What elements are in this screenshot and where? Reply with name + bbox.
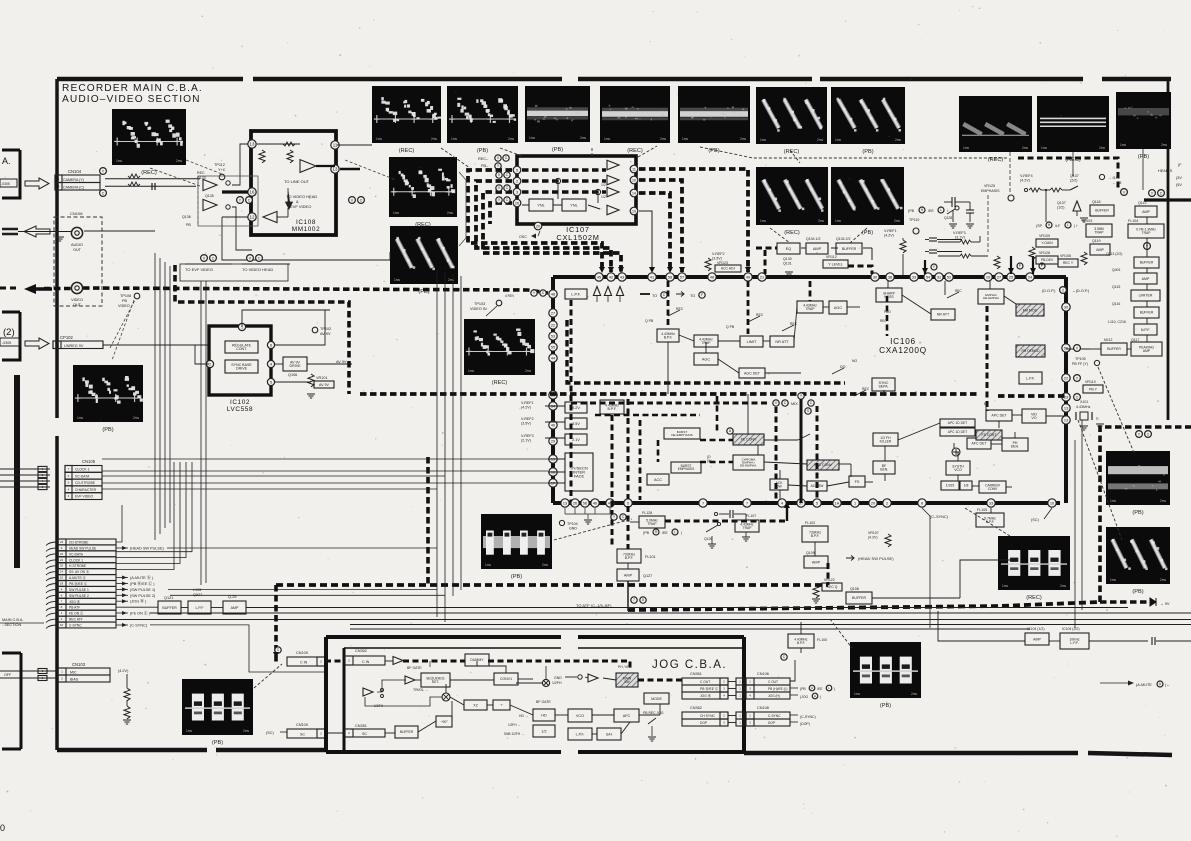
wire UNREG 9V to IC102 [103, 344, 209, 346]
svg-text:H: H [811, 686, 813, 690]
svg-text:Q113 (2/2): Q113 (2/2) [1106, 252, 1122, 256]
svg-text:16: 16 [60, 623, 64, 627]
NSC CONV hatched box [807, 460, 839, 470]
svg-text:CD-STROBE: CD-STROBE [69, 541, 89, 545]
diode and 9V at right end [1150, 598, 1156, 606]
svg-text:(REC): (REC) [627, 148, 643, 154]
dashed pointer photo p1 to IC107 bus [441, 148, 470, 168]
svg-text:): ) [820, 695, 821, 699]
wire bundle from CN105 to interface [102, 458, 548, 460]
svg-text:5: 5 [516, 168, 518, 172]
BURST EMPHASIS box [671, 462, 701, 473]
svg-text:(4.2V): (4.2V) [884, 234, 894, 238]
connector stub wires left edge to CN105 [0, 468, 50, 470]
svg-text:V-REF1: V-REF1 [884, 229, 897, 233]
IC107 YNL delay boxes [529, 199, 553, 211]
svg-text:→ ℓ106: → ℓ106 [1108, 176, 1120, 180]
oscillogram photo p15 (PB) [390, 226, 458, 284]
svg-text:C IN: C IN [300, 661, 308, 665]
oscillogram photo p3 (PB) [525, 86, 590, 142]
svg-text:L.P.F: L.P.F [195, 606, 204, 610]
dashed pointer photo p6 label [790, 150, 800, 163]
svg-text:1ms: 1ms [116, 159, 122, 163]
amp triangle after CN352 [393, 657, 403, 665]
dashed riser above pin5 [627, 399, 630, 499]
FS box 2 [849, 476, 851, 478]
svg-text:B.P.F.: B.P.F. [797, 641, 805, 645]
JOG C.B.A. box border [326, 635, 561, 639]
dashed wire C IN to DUMMY [403, 660, 465, 663]
wire IC108 right side to east [340, 144, 372, 146]
svg-text:29: 29 [551, 439, 555, 443]
svg-text:SEPA.: SEPA. [878, 384, 888, 388]
svg-text:AMP: AMP [231, 606, 239, 610]
IC107 dashed bus left pin 5 [468, 170, 602, 272]
wire top joining IC108 to top area [337, 144, 362, 146]
BF GEN box [873, 461, 895, 474]
LPF box jog [568, 728, 592, 740]
svg-text:CONV1: CONV1 [500, 677, 512, 681]
svg-text:C: C [360, 198, 363, 202]
oscillogram photo p9 (REC) [1037, 96, 1109, 152]
svg-text:Q127: Q127 [643, 574, 652, 578]
svg-text:40: 40 [551, 423, 555, 427]
svg-text:L: L [674, 530, 676, 534]
svg-text:1/8: 1/8 [964, 484, 969, 488]
resistor and heavy drops to bus [994, 256, 1000, 269]
svg-text:OUT: OUT [73, 303, 82, 307]
IC107 CXL1502M box [517, 156, 636, 224]
svg-text:Q106: Q106 [288, 373, 297, 377]
svg-text:33: 33 [989, 501, 993, 505]
svg-text:C: C [248, 198, 251, 202]
svg-text:SNB 1/2FH →: SNB 1/2FH → [504, 732, 524, 736]
svg-text:Q108: Q108 [850, 587, 859, 591]
svg-text:M112: M112 [1104, 338, 1113, 342]
svg-text:BUFFER: BUFFER [400, 730, 414, 734]
svg-text:TO VIDEO HEAD: TO VIDEO HEAD [242, 267, 273, 272]
svg-text:14: 14 [60, 570, 64, 574]
svg-text:): ) [834, 687, 835, 691]
pin V and Y C right top [1121, 189, 1128, 196]
svg-text:P: P [1041, 264, 1043, 268]
oscillogram photo p14 (REC) [389, 157, 457, 217]
svg-text:BUFFER: BUFFER [1140, 311, 1154, 315]
svg-text:CONV: CONV [988, 487, 998, 491]
svg-text:EMPHASIS: EMPHASIS [981, 189, 1000, 193]
svg-text:(SC): (SC) [266, 731, 275, 735]
svg-text:BUFFER: BUFFER [852, 596, 866, 600]
svg-text:1ms: 1ms [760, 138, 766, 142]
gnd marks below bus pins [564, 508, 566, 514]
svg-text:IC104 (1/2): IC104 (1/2) [1027, 627, 1045, 631]
heavy bus vertical x553 [551, 277, 555, 503]
svg-text:Q109: Q109 [806, 551, 815, 555]
svg-text:PB ATF: PB ATF [69, 606, 80, 610]
svg-text:MM1002: MM1002 [292, 226, 320, 233]
black arrow out video [24, 284, 52, 294]
svg-text:CN109: CN109 [296, 651, 308, 655]
svg-text:55: 55 [551, 345, 555, 349]
svg-text:(PB): (PB) [477, 148, 488, 154]
IC108 pin 13 right [331, 165, 339, 173]
svg-text:AV 9V: AV 9V [336, 360, 347, 364]
svg-text:⊦: ⊦ [947, 209, 949, 213]
svg-text:57: 57 [680, 275, 684, 279]
svg-text:FL128: FL128 [642, 511, 652, 515]
svg-text:VR101: VR101 [316, 376, 328, 380]
EMPHA DE-EMPHA box [978, 289, 1004, 304]
svg-text:1ms: 1ms [468, 369, 474, 373]
svg-text:MODE: MODE [651, 697, 662, 701]
svg-text:2ms: 2ms [525, 369, 531, 373]
PH DEH box [1002, 438, 1028, 451]
svg-text:) ⊦: ) ⊦ [1074, 224, 1078, 228]
DUMMY box [465, 654, 489, 666]
svg-text:53: 53 [551, 334, 555, 338]
svg-text:APC 1D DET: APC 1D DET [948, 430, 967, 434]
TP104 GND test point [559, 520, 564, 525]
svg-text:AGC: AGC [702, 357, 710, 361]
svg-text:1/2: 1/2 [601, 195, 606, 199]
svg-text:REC Q: REC Q [827, 585, 838, 589]
CN102 left hook wires [46, 542, 57, 546]
svg-text:(PB): (PB) [1138, 154, 1149, 160]
svg-text:AMP: AMP [812, 560, 821, 564]
svg-text:Q119: Q119 [1092, 239, 1101, 243]
svg-text:EVF VIDEO: EVF VIDEO [75, 495, 93, 499]
svg-text:2ms: 2ms [660, 137, 666, 141]
svg-text:(1/2): (1/2) [1057, 206, 1064, 210]
svg-text:L113: L113 [193, 588, 201, 592]
svg-text:VIDEO: VIDEO [118, 304, 130, 308]
svg-text:X2: X2 [473, 703, 477, 707]
svg-text:16: 16 [250, 190, 255, 195]
svg-text:AUDIO: AUDIO [71, 243, 83, 247]
dashed pointer p13 photo to circuit [186, 160, 222, 174]
svg-text:FL105: FL105 [977, 508, 987, 512]
svg-text:Q126: Q126 [704, 537, 712, 541]
oscillogram photo p7 (PB) [831, 87, 905, 144]
svg-text:58: 58 [668, 275, 672, 279]
svg-text:(PB): (PB) [862, 149, 873, 155]
svg-text:(PB): (PB) [102, 427, 113, 433]
svg-text:CN362: CN362 [690, 706, 702, 710]
svg-text:2: 2 [516, 179, 518, 183]
svg-text:4: 4 [270, 362, 272, 366]
IC107 dashed bus left pin 3 [483, 192, 621, 272]
svg-text:7: 7 [746, 501, 748, 505]
svg-text:(C-SYNC): (C-SYNC) [800, 715, 816, 719]
IC108 pin 11 right [331, 141, 339, 149]
audio out wire [84, 230, 155, 232]
svg-text:Q117: Q117 [1131, 338, 1139, 342]
svg-text:PB REC JOG: PB REC JOG [643, 711, 664, 715]
svg-text:1ms: 1ms [835, 219, 841, 223]
svg-text:(4.2V): (4.2V) [1020, 179, 1030, 183]
dashed pointer from photo p14 to IC108 [345, 160, 396, 180]
dash-dot drop from photo p8 [1009, 152, 1011, 194]
svg-text:6: 6 [270, 343, 272, 347]
mixer circle X [442, 693, 450, 701]
svg-text:4.43MHz: 4.43MHz [1076, 405, 1091, 409]
svg-text:20: 20 [60, 564, 64, 568]
wire pin12 from below [222, 216, 248, 218]
svg-text:(3.1V): (3.1V) [955, 236, 965, 240]
resistors after vref4 [1024, 188, 1027, 191]
JOG inner border left and top [343, 648, 346, 750]
APC DET box [986, 410, 1012, 421]
svg-text:CN104: CN104 [68, 169, 82, 174]
svg-text:(PB: (PB [643, 531, 650, 535]
svg-text:SW PULSE 2: SW PULSE 2 [69, 594, 89, 598]
svg-text:TP103: TP103 [474, 302, 485, 306]
svg-text:L.P.F.: L.P.F. [576, 732, 585, 736]
q-cluster dashed box [198, 176, 258, 226]
svg-text:TO EVF VIDEO: TO EVF VIDEO [185, 267, 213, 272]
svg-text:- SECTION: - SECTION [2, 623, 21, 627]
svg-text:13: 13 [1064, 418, 1068, 422]
svg-text:V-REF1: V-REF1 [521, 401, 534, 405]
svg-text:TO: TO [652, 294, 657, 298]
svg-text:CN103: CN103 [72, 662, 86, 667]
svg-text:22: 22 [551, 323, 555, 327]
svg-text:VR125: VR125 [984, 184, 995, 188]
svg-text:Q112: Q112 [1138, 201, 1147, 205]
svg-text:30: 30 [873, 275, 877, 279]
svg-text:(C-SYNC): (C-SYNC) [130, 624, 148, 628]
svg-text:T1: T1 [55, 343, 59, 347]
svg-text:EMPHASIS: EMPHASIS [678, 467, 694, 471]
svg-text:19: 19 [632, 209, 636, 213]
oscillogram photo p20 (PB) [850, 642, 921, 698]
connector CN102 (15 rows) [57, 539, 116, 545]
svg-text:CAMERA (Y): CAMERA (Y) [63, 178, 84, 182]
svg-text:JOG (H): JOG (H) [768, 694, 780, 698]
IC107 dashed bus pin 10 [639, 180, 682, 272]
svg-text:YNL: YNL [537, 203, 544, 207]
svg-text:B.P.F.: B.P.F. [625, 556, 634, 560]
svg-text:13: 13 [563, 501, 567, 505]
svg-text:DRIVE: DRIVE [290, 364, 302, 368]
svg-text:VR106: VR106 [1060, 254, 1071, 258]
svg-text:APC 1D DET: APC 1D DET [948, 421, 967, 425]
SYNC SEPA box [872, 378, 895, 391]
svg-text:B.P.F.: B.P.F. [608, 407, 617, 411]
svg-text:CN351: CN351 [355, 724, 367, 728]
pin Y near demod [1074, 345, 1081, 352]
svg-text:NO: NO [852, 359, 857, 363]
pins on bottom bus y503 [561, 499, 569, 507]
svg-text:1A: 1A [835, 501, 840, 505]
photo bracket pointer lines [459, 172, 466, 246]
svg-text:42: 42 [609, 275, 613, 279]
svg-text:VR107: VR107 [868, 531, 879, 535]
svg-text:NESS: NESS [884, 295, 894, 299]
svg-text:2ms: 2ms [817, 138, 823, 142]
oscillogram photo p19 (PB) [182, 679, 253, 735]
svg-text:FACE: FACE [574, 473, 585, 478]
svg-text:SC: SC [300, 733, 305, 737]
pins on top bus y277 [595, 273, 603, 281]
svg-text:FE ON Ⓒ: FE ON Ⓒ [69, 611, 84, 616]
NR ATT box [770, 336, 794, 347]
svg-text:44: 44 [551, 356, 555, 360]
svg-text:S/H: S/H [606, 732, 613, 736]
svg-text:1/2: 1/2 [601, 183, 606, 187]
svg-text:FM MOD: FM MOD [1023, 308, 1038, 312]
svg-text:1ms: 1ms [1041, 146, 1047, 150]
svg-text:2ms: 2ms [818, 219, 824, 223]
svg-text:-0305: -0305 [1, 182, 10, 186]
svg-text:1ms: 1ms [376, 137, 382, 141]
svg-text:(D.O.P.): (D.O.P.) [1042, 289, 1056, 293]
wire audio section vertical [154, 253, 156, 540]
FM MOD hatched box [1016, 304, 1044, 316]
wires vref to bus [545, 405, 565, 407]
svg-text:L.P.F.: L.P.F. [571, 292, 580, 296]
IC107 dashed bus left pin 2 [476, 181, 611, 272]
svg-text:7: 7 [702, 501, 704, 505]
svg-text:Y-GAIN: Y-GAIN [1041, 241, 1053, 245]
svg-text:BUFFER: BUFFER [162, 606, 177, 610]
C-SYNC riser to IC106 [922, 508, 930, 628]
svg-text:): ) [681, 531, 682, 535]
long thin signal lines lower band [150, 612, 1191, 614]
svg-text:TO LINE OUT: TO LINE OUT [284, 179, 310, 184]
vertical wire bundle x437-461 [436, 270, 438, 617]
svg-text:← PB: ← PB [1112, 181, 1122, 185]
svg-text:V-REF3: V-REF3 [953, 231, 966, 235]
svg-text:CXA1200Q: CXA1200Q [879, 346, 927, 355]
svg-text:BUFFER: BUFFER [1107, 347, 1121, 351]
svg-text:APC DET: APC DET [991, 414, 1007, 418]
IC102 LVC558 box [209, 326, 271, 395]
svg-text:(JOG: (JOG [800, 695, 808, 699]
svg-text:22: 22 [1064, 376, 1068, 380]
video out jack [71, 282, 82, 293]
AGC DET box [739, 368, 765, 378]
svg-text:54: 54 [926, 275, 930, 279]
svg-text:AFC DET: AFC DET [972, 442, 988, 446]
pins Y C on dashed box [1136, 431, 1143, 438]
heavy bus right x1066 [1064, 277, 1068, 503]
svg-text:SW: SW [624, 680, 630, 684]
svg-text:2ms: 2ms [1060, 584, 1066, 588]
svg-text:C: C [212, 256, 215, 260]
svg-text:TRAP: TRAP [743, 526, 753, 530]
svg-text:-0305: -0305 [2, 341, 11, 345]
svg-text:FL107: FL107 [746, 514, 756, 518]
svg-text:DOP: DOP [768, 721, 776, 725]
oscillogram photo p12 (PB) [831, 167, 904, 225]
pin Y mid right [1144, 243, 1151, 250]
wires around killer/vco [884, 446, 886, 461]
svg-text:AGC DET: AGC DET [744, 371, 761, 375]
svg-text:OUT: OUT [73, 248, 82, 252]
svg-text:BUFFER: BUFFER [1140, 261, 1154, 265]
connector block (2) page edge [2, 311, 20, 314]
main board outer border bottom-left [57, 748, 207, 753]
pins Y C before pin 48 [531, 290, 537, 296]
svg-text:PB FF (Y): PB FF (Y) [1072, 362, 1088, 366]
svg-text:C OUT: C OUT [700, 680, 710, 684]
svg-text:(PB: (PB [800, 687, 806, 691]
BUFFER box jog [395, 726, 418, 738]
ACK SW box [770, 479, 788, 490]
Q127 AMP box [617, 569, 639, 581]
svg-text:56: 56 [1064, 346, 1068, 350]
svg-text:5: 5 [627, 501, 629, 505]
svg-text:Q134 2/2: Q134 2/2 [836, 237, 850, 241]
FL100 4.43MHz BPF box [788, 634, 814, 648]
AFC DET box [967, 438, 991, 449]
svg-text:LVC558: LVC558 [227, 406, 253, 413]
svg-text:FDO: FDO [884, 310, 891, 314]
svg-text:18: 18 [60, 582, 64, 586]
IC102 REGULATE CONT box [225, 341, 258, 353]
svg-text:CD-STROBE: CD-STROBE [75, 481, 96, 485]
svg-text:(SW PULSE 2): (SW PULSE 2) [130, 594, 156, 598]
svg-text:BIAS: BIAS [70, 678, 79, 682]
svg-text:TRAP: TRAP [1094, 230, 1104, 234]
svg-text:(4.2V): (4.2V) [868, 536, 878, 540]
svg-text:FS: FS [855, 480, 860, 484]
dashed pointer photo p11 to circuit [770, 228, 790, 243]
svg-text:EVF VIDEO: EVF VIDEO [290, 204, 311, 209]
svg-text:IC102: IC102 [230, 399, 250, 406]
FS box [849, 476, 865, 487]
FL101 733KHz BPF box [617, 549, 641, 563]
svg-text:Q401: Q401 [1112, 268, 1121, 272]
wire buffer chain to bus pins [1066, 348, 1090, 350]
svg-text:2ms: 2ms [1160, 499, 1166, 503]
AGC box right [829, 301, 847, 314]
svg-text:VCO: VCO [576, 714, 584, 718]
svg-text:(C–SYNC): (C–SYNC) [930, 515, 949, 519]
svg-text:2ms: 2ms [740, 137, 746, 141]
svg-text:AMP: AMP [1142, 277, 1150, 281]
dashed from BUFFER to pin30 [848, 266, 872, 274]
svg-text:(REC): (REC) [1026, 595, 1042, 601]
svg-text:7: 7 [633, 598, 635, 602]
svg-text:L110, C216: L110, C216 [1108, 320, 1126, 324]
svg-text:CAMERA (C): CAMERA (C) [63, 186, 84, 190]
svg-text:L: L [940, 208, 942, 212]
svg-text:13: 13 [1064, 406, 1068, 410]
SY/SECN INTERFACE box [565, 453, 593, 491]
pin pairs V C left of IC107 [496, 172, 502, 178]
IC107 left pins [513, 166, 521, 174]
svg-text:2: 2 [886, 501, 888, 505]
svg-text:Q PB: Q PB [645, 319, 654, 323]
svg-text:VR112: VR112 [826, 255, 837, 259]
svg-text:FL100: FL100 [817, 638, 827, 642]
svg-text:1ms: 1ms [485, 563, 491, 567]
svg-text:31: 31 [937, 275, 941, 279]
svg-text:Q131: Q131 [783, 262, 792, 266]
svg-text:SW PULSE 1: SW PULSE 1 [69, 588, 89, 592]
svg-text:TP102: TP102 [320, 327, 331, 331]
svg-text:45: 45 [597, 275, 601, 279]
L.P.F. box after pin 48 [565, 289, 587, 299]
pins on right bus x1066 [1062, 303, 1070, 311]
dashed bus y383 [567, 320, 845, 383]
pins V C right of IC108 [349, 197, 356, 204]
caps and resistors row y242 [938, 241, 960, 243]
1/2 FH KILLER box [873, 433, 898, 446]
ACF SW box [807, 481, 827, 491]
